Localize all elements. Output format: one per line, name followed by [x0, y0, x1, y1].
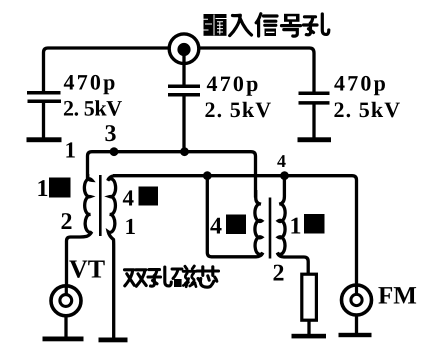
svg-text:2. 5kV: 2. 5kV [334, 97, 402, 122]
char 孔 [304, 14, 329, 35]
svg-text:2: 2 [273, 261, 285, 287]
transformer T2 core [269, 198, 272, 259]
svg-text:470p: 470p [334, 71, 388, 96]
transformer T1 core [99, 175, 102, 236]
node junction C2 [180, 147, 189, 156]
wire jack to C2 [182, 51, 185, 86]
capacitor C2 [168, 86, 200, 95]
ground VT [43, 337, 84, 342]
transformer T2 winding 2 (1 turn) [277, 176, 308, 275]
svg-text:1: 1 [65, 138, 77, 163]
ground FM [339, 333, 372, 337]
char 号 [282, 14, 301, 36]
svg-text:VT: VT [69, 255, 105, 284]
input jack J1 [169, 34, 199, 64]
svg-text:4: 4 [277, 151, 286, 171]
label title: 输入信号孔 [204, 14, 329, 36]
char 芯 [197, 267, 219, 287]
node junction T2 return [203, 171, 212, 180]
svg-text:470p: 470p [64, 70, 118, 95]
svg-text:FM: FM [378, 283, 417, 310]
ground [298, 137, 332, 142]
svg-text:1: 1 [37, 176, 49, 202]
node 4 [280, 171, 289, 180]
wire node bus 2 (node 4) to FM [113, 176, 357, 285]
svg-text:2. 5kV: 2. 5kV [205, 97, 273, 122]
label 双孔磁芯 [125, 266, 219, 287]
ground R1 [292, 334, 327, 339]
wire R1 to ground [307, 320, 310, 335]
VT jack [51, 286, 81, 316]
svg-text:2: 2 [61, 209, 73, 235]
wire C1 to ground [42, 101, 45, 139]
wire C3 to ground [312, 102, 315, 139]
FM jack [342, 285, 372, 315]
svg-text:1: 1 [290, 214, 302, 240]
svg-text:470p: 470p [207, 71, 261, 96]
wire top bus from C1 to C3 [44, 48, 315, 93]
svg-text:4: 4 [210, 214, 222, 240]
node 3 [110, 147, 119, 156]
char 信 [256, 14, 277, 36]
char 双 [125, 270, 147, 286]
char 孔 [148, 267, 171, 286]
ground T1 winding2 [99, 338, 128, 343]
capacitor C1 [27, 93, 61, 101]
wire FM to ground [355, 315, 358, 334]
wire VT to ground [64, 316, 67, 338]
transformer T2 winding 1 (4 turns) [207, 176, 262, 257]
resistor R1 [302, 274, 317, 320]
svg-text:1: 1 [125, 214, 137, 239]
wire node bus 1 (node 3) [88, 152, 256, 198]
transformer T1 winding 1 (1 turn) [67, 174, 93, 287]
ground [27, 137, 62, 142]
char 入 [230, 15, 252, 35]
char 输 [204, 14, 227, 36]
svg-text:4: 4 [123, 186, 135, 211]
char 磁 [172, 266, 196, 287]
transformer T1 winding 2 (4 turns) [108, 176, 116, 338]
wire C2 to node [182, 94, 185, 153]
capacitor C3 [299, 93, 330, 103]
svg-text:2. 5kV: 2. 5kV [63, 96, 122, 121]
svg-text:3: 3 [105, 121, 117, 147]
